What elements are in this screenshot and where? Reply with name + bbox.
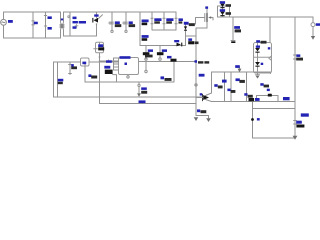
- bottom rail: [253, 137, 296, 139]
- capacitor C1: [44, 12, 46, 38]
- resistor Rs vertical: [84, 66, 86, 82]
- secondary loop: [218, 6, 230, 17]
- IC left pins: [114, 58, 119, 70]
- fb resistor R5: [230, 72, 232, 102]
- probe stub 3: [145, 62, 147, 71]
- IC bottom pin circle: [127, 75, 129, 76]
- label C1b: [48, 27, 52, 30]
- fb resistor R6: [246, 72, 248, 102]
- label Rs line1: [88, 74, 91, 77]
- big box top edge: [54, 61, 119, 63]
- black component marks: [71, 4, 304, 128]
- startup inner stub: [94, 42, 100, 49]
- startup block box: [96, 42, 104, 53]
- cap C4 mark: [129, 24, 136, 27]
- probe mark 1: [143, 52, 150, 55]
- label Q1: [104, 66, 110, 69]
- fb resistor R4: [224, 72, 226, 102]
- label load R line2: [296, 121, 302, 124]
- ground arrow left: [194, 117, 199, 121]
- label box1 line2: [154, 21, 160, 23]
- label load R line1: [301, 113, 309, 116]
- junction dot bridge: [96, 23, 98, 25]
- label hop left: [260, 83, 263, 86]
- mosfet M1 body arrow: [211, 18, 213, 21]
- lower loop wire: [100, 103, 197, 105]
- wire Q2 base vertical: [195, 98, 197, 116]
- cap Cout stub: [231, 17, 235, 41]
- label Rt: [141, 87, 147, 90]
- Vcc black text: [145, 55, 153, 58]
- label R1: [34, 22, 38, 25]
- big box left edge: [53, 62, 55, 97]
- label C3: [115, 21, 120, 24]
- label IC dot: [125, 63, 128, 66]
- out rail: [218, 16, 314, 18]
- load resistor mark: [296, 125, 304, 128]
- opto ground: [256, 73, 260, 75]
- label SW dot: [195, 60, 198, 63]
- out port ground arrow: [311, 36, 315, 40]
- resistor Rt: [138, 82, 140, 93]
- snubber box mid: [163, 12, 165, 30]
- Q1 mark: [105, 70, 113, 74]
- wire input top rail: [4, 12, 61, 19]
- wire rectified bottom rail: [64, 35, 97, 37]
- wire FB horizontal: [139, 61, 197, 63]
- resistor R1: [32, 12, 34, 38]
- label R4: [222, 80, 227, 83]
- label box2 line2: [166, 21, 172, 23]
- label box1 line1: [154, 18, 161, 21]
- wire startup to IC: [100, 60, 114, 62]
- Vcc probe stub: [145, 58, 147, 59]
- lower step wire: [253, 108, 296, 110]
- label V1: [8, 20, 13, 23]
- C5 mark lower: [142, 38, 148, 41]
- label C2a: [73, 17, 77, 20]
- out right vertical: [293, 17, 296, 138]
- diode D2: [184, 26, 187, 29]
- Q2 arrow: [203, 95, 209, 100]
- D2 black text: [189, 23, 195, 26]
- diode Dbr mark: [94, 18, 98, 23]
- gnd rail secondary: [212, 101, 296, 103]
- label out port: [316, 23, 320, 26]
- label Dz: [296, 54, 300, 57]
- label C2b: [73, 26, 77, 29]
- label Rs line2: [91, 76, 97, 79]
- battery B1: [69, 62, 72, 75]
- label probe1: [148, 49, 153, 52]
- label lower left line1: [58, 79, 64, 82]
- ground arrow right: [206, 118, 211, 122]
- SW black text: [198, 61, 203, 63]
- label fb dot: [257, 118, 260, 120]
- mosfet M1 channel: [206, 9, 208, 28]
- label C5b: [142, 35, 149, 38]
- out diode Dz mark: [296, 58, 303, 61]
- startup mark: [98, 47, 104, 50]
- fb comp top arrow: [239, 67, 241, 72]
- label mid wire: [161, 76, 165, 79]
- cap Cout mark: [235, 29, 241, 32]
- label L1 dot: [61, 19, 63, 21]
- label opto title: [256, 40, 260, 42]
- diode D3: [177, 43, 181, 47]
- label comp arrow: [235, 65, 240, 68]
- gate node stub: [195, 62, 197, 84]
- snubber box left: [151, 12, 176, 30]
- capacitor C5: [139, 12, 141, 46]
- diode bridge stubs: [97, 12, 103, 36]
- label box2 line1: [166, 18, 173, 21]
- fb divider vertical: [252, 102, 254, 139]
- ground bar: [196, 116, 209, 119]
- C5 mark upper: [142, 23, 148, 26]
- label R4 value pair: [227, 89, 230, 92]
- secondary diode DS2: [220, 12, 225, 15]
- hop label1 black: [264, 85, 269, 88]
- probe stub 2: [159, 46, 161, 58]
- capacitor C3 stub: [111, 12, 114, 30]
- label Q2 collector: [214, 84, 217, 87]
- label loop net: [139, 100, 146, 103]
- wire input bottom rail: [4, 25, 61, 38]
- choke L1 left winding: [60, 12, 63, 38]
- FB mark black: [171, 59, 177, 62]
- capacitor C4 stub: [125, 12, 128, 30]
- label C4: [129, 21, 133, 24]
- mosfet M1 gate bar: [204, 14, 206, 22]
- label gnd mark: [255, 98, 260, 101]
- opto U2 box: [254, 43, 272, 74]
- mid wire mark black: [165, 78, 172, 81]
- label battery: [71, 64, 74, 66]
- label D3: [174, 40, 179, 42]
- DS2 black text: [226, 12, 231, 15]
- label Rsense: [188, 38, 192, 41]
- wire rectified top rail: [64, 11, 177, 13]
- Rt black text: [141, 91, 147, 94]
- wire Q1 emitter: [113, 75, 117, 82]
- label DS1: [220, 1, 225, 3]
- label opto dot2: [261, 63, 264, 65]
- label DS2: [220, 9, 225, 11]
- label IC title: [120, 56, 131, 59]
- gnd rail mark: [249, 98, 255, 101]
- wire fb return: [85, 62, 174, 83]
- sense resistor mark: [188, 41, 194, 44]
- label hop right: [283, 97, 290, 100]
- label fuse: [82, 62, 86, 65]
- gnd arrow bottom: [293, 136, 298, 140]
- startup long vertical: [99, 53, 101, 104]
- wire sense branch: [140, 36, 196, 46]
- label M1 dot: [205, 6, 208, 8]
- label R5 value: [239, 80, 245, 83]
- opto transistor arrow: [269, 56, 272, 60]
- label lower left line2: [58, 82, 63, 84]
- label Cout: [234, 26, 240, 29]
- label C5a: [142, 20, 149, 23]
- label probe2: [162, 49, 167, 52]
- label C1a: [48, 16, 52, 19]
- transistor Q2 collector: [206, 72, 212, 96]
- label startup: [98, 44, 103, 47]
- ground rail primary: [54, 96, 203, 98]
- label R6: [244, 93, 247, 96]
- probe mark 2: [157, 52, 164, 55]
- label D2clamp: [184, 22, 189, 25]
- fb junction dot: [251, 118, 254, 121]
- label opto led: [256, 46, 260, 48]
- label Dbr: [94, 14, 98, 16]
- secondary diode stem: [222, 6, 224, 17]
- opto led chain: [257, 43, 259, 74]
- probe stub 1: [145, 46, 147, 58]
- wire hop: [257, 94, 279, 102]
- choke L1 right winding: [62, 12, 65, 36]
- capacitor C2: [69, 12, 71, 36]
- secondary diode DS1: [220, 4, 225, 7]
- opto mid line: [254, 56, 272, 58]
- voltage source V1: [1, 19, 7, 25]
- opto led2: [255, 62, 260, 65]
- label R5: [236, 78, 240, 81]
- label net text b: [79, 21, 86, 24]
- opto feed stub: [269, 17, 271, 43]
- hop tick mark: [268, 94, 272, 97]
- label hop2: [267, 89, 270, 91]
- wire gate path: [186, 18, 205, 25]
- choke L1 core: [60, 25, 64, 27]
- transistor Q2 base wire: [196, 97, 203, 99]
- label opto dot1: [268, 47, 271, 49]
- opto title black: [261, 41, 267, 44]
- DS1 black text: [226, 4, 231, 7]
- label startup top: [106, 60, 112, 63]
- label gate node: [199, 74, 205, 77]
- transistor Q2 emitter: [206, 100, 212, 102]
- fb top edge: [212, 72, 271, 74]
- Rb black text: [201, 110, 207, 113]
- wire source jog: [196, 28, 207, 98]
- label FB mark: [167, 56, 172, 59]
- snubber box right: [175, 12, 177, 30]
- out port wire: [312, 17, 314, 23]
- opto led1: [255, 48, 260, 51]
- blue labels: [8, 1, 320, 124]
- IC U1 box: [119, 58, 139, 75]
- cap C3 mark: [115, 24, 122, 27]
- label Rb: [197, 109, 200, 112]
- label net text a: [73, 21, 78, 23]
- battery black text: [71, 66, 77, 69]
- label Q2 dot: [200, 93, 203, 95]
- fuse box on rail: [81, 58, 90, 66]
- gate clamp vertical: [185, 24, 187, 46]
- big box inner edge: [57, 62, 59, 97]
- label D2: [179, 18, 183, 21]
- transistor Q2 bar: [202, 94, 204, 101]
